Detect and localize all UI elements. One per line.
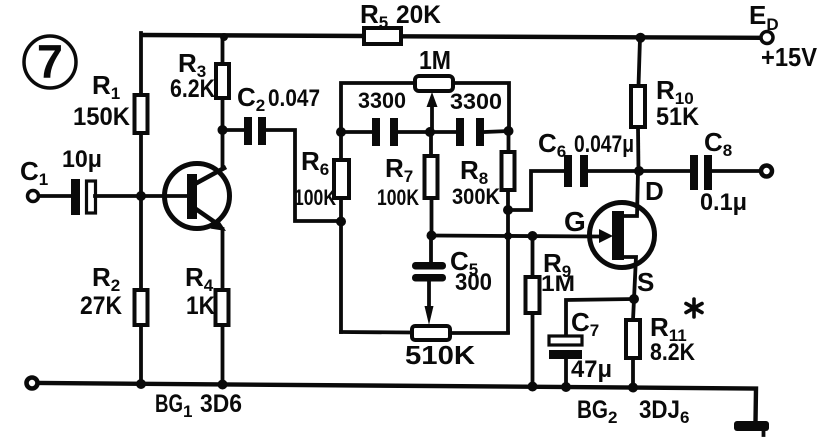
node drain: [634, 166, 644, 176]
svg-text:6.2K: 6.2K: [170, 75, 215, 103]
svg-text:3D6: 3D6: [200, 390, 242, 418]
node cap row middle: [425, 127, 435, 137]
wire C8 to output: [712, 169, 761, 173]
svg-text:+15V: +15V: [761, 42, 818, 72]
node bottom rail R4: [218, 380, 228, 390]
wire input to C1: [39, 194, 71, 198]
svg-text:51K: 51K: [656, 103, 699, 131]
wire R4 to bottom rail: [221, 325, 225, 384]
svg-text:1M: 1M: [419, 45, 451, 75]
wire C6 jog: [508, 171, 564, 210]
wire twin-T left down: [339, 222, 343, 332]
svg-text:3300: 3300: [450, 89, 502, 114]
svg-text:100K: 100K: [294, 185, 336, 210]
resistor R5 20K: [360, 0, 441, 44]
potentiometer 1M: [415, 45, 453, 132]
output terminal: [761, 166, 772, 177]
svg-text:1K: 1K: [186, 292, 215, 320]
wire left column upper: [139, 33, 143, 95]
node gate row left: [427, 231, 437, 241]
wire bottom rail: [38, 383, 756, 422]
svg-text:100K: 100K: [377, 185, 419, 210]
resistor R2 27K: [80, 262, 148, 325]
transistor BG2 FET: [590, 172, 655, 299]
svg-text:8.2K: 8.2K: [650, 339, 696, 366]
resistor R7 100K: [377, 132, 438, 235]
wire twin-T bottom right: [450, 331, 508, 335]
capacitor 3300 right: [450, 89, 502, 146]
resistor R1 150K: [73, 70, 148, 133]
svg-text:510K: 510K: [405, 340, 475, 370]
node cap row right: [504, 126, 514, 136]
wire C7 top: [566, 299, 634, 337]
capacitor C2 0.047: [237, 82, 320, 145]
terminal ED +15V: [749, 0, 818, 72]
svg-text:S: S: [637, 267, 654, 297]
node bottom rail R2: [136, 379, 146, 389]
transistor BG1 name label: [155, 390, 242, 421]
node gate row crossing: [504, 232, 512, 240]
resistor R6 100K: [294, 132, 349, 222]
capacitor C6 0.047u: [538, 128, 634, 187]
ground terminal left: [27, 378, 38, 389]
wire left column lower: [139, 325, 143, 384]
capacitor C8 0.1u: [690, 127, 747, 216]
wire twin-T bottom left: [341, 330, 412, 334]
ground: [734, 421, 769, 435]
capacitor C7 47u: [549, 307, 612, 385]
node gate row R9: [528, 231, 538, 241]
capacitor C5 300: [412, 235, 492, 296]
svg-text:20K: 20K: [396, 1, 441, 29]
svg-text:D: D: [645, 176, 664, 206]
node source: [629, 294, 639, 304]
node bottom rail R11: [628, 383, 638, 393]
wire cap row a: [341, 130, 372, 134]
svg-text:1M: 1M: [541, 271, 575, 296]
transistor BG2 name label: [577, 396, 689, 427]
svg-text:0.1μ: 0.1μ: [700, 189, 747, 216]
node bottom rail R9: [528, 382, 538, 392]
node bottom rail C7: [561, 382, 571, 392]
wire R8 column down: [506, 210, 510, 332]
node collector: [218, 125, 228, 135]
wire cap row c: [484, 131, 509, 132]
resistor R3 6.2K: [170, 48, 229, 103]
resistor R8 300K: [452, 131, 515, 210]
node R8 bottom: [503, 205, 513, 215]
svg-text:300: 300: [455, 269, 492, 296]
wire R3 top lead: [221, 37, 225, 64]
wire twin-T top right: [453, 83, 509, 131]
wire top rail left segment: [142, 35, 364, 36]
node base: [136, 191, 146, 201]
svg-text:150K: 150K: [73, 103, 130, 131]
wire twin-T top left: [341, 83, 415, 132]
input terminal: [28, 191, 39, 202]
capacitor C1 10u: [20, 146, 102, 215]
wire gate row: [432, 236, 599, 237]
svg-text:47μ: 47μ: [571, 356, 612, 383]
wire C1 to base node: [95, 194, 141, 198]
resistor R9 1M: [526, 236, 576, 385]
wire C6 to drain node: [588, 169, 639, 173]
wire C2 to twin-T node: [266, 130, 341, 221]
svg-text:300K: 300K: [452, 184, 500, 209]
node twin-T left: [336, 217, 346, 227]
resistor R11 8.2K: [626, 299, 702, 385]
svg-text:3300: 3300: [358, 88, 406, 113]
wire cap row b: [398, 130, 456, 134]
svg-text:10μ: 10μ: [62, 146, 102, 173]
resistor R4 1K: [185, 262, 229, 325]
node top rail R10: [636, 33, 646, 43]
transistor BG1: [141, 164, 230, 232]
wire emitter column: [221, 229, 225, 290]
svg-text:0.047μ: 0.047μ: [574, 131, 634, 158]
node cap row left: [336, 127, 346, 137]
capacitor 3300 left: [358, 88, 406, 146]
wire left column middle: [139, 133, 143, 290]
figure number 7: [24, 35, 76, 88]
potentiometer 510K: [405, 281, 475, 370]
svg-text:G: G: [564, 206, 586, 237]
svg-text:0.047: 0.047: [268, 85, 320, 112]
wire collector to C2: [222, 128, 244, 132]
wire top rail right segment: [401, 36, 760, 38]
node top rail R3: [220, 33, 228, 41]
svg-text:7: 7: [37, 35, 63, 88]
svg-text:27K: 27K: [80, 292, 122, 320]
resistor R10 51K: [631, 38, 699, 171]
wire collector column: [221, 98, 225, 167]
wire drain to C8: [639, 169, 690, 173]
